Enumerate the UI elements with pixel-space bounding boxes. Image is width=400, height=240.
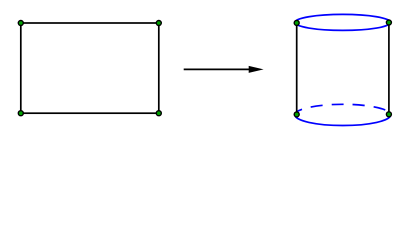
cylinder top ellipse [295, 14, 391, 30]
cylinder dot bottom-right [386, 112, 391, 117]
cylinder left side line [296, 23, 298, 115]
arrow head [249, 66, 264, 73]
vertex dot C (bottom-left) [18, 111, 23, 116]
cylinder bottom ellipse back arc (dashed) [295, 104, 391, 115]
vertex dot A (top-left) [18, 21, 23, 26]
arrow shaft [184, 68, 252, 70]
vertex dot B (top-right) [156, 21, 161, 26]
cylinder right side line [388, 23, 390, 115]
cylinder dot top-right [386, 20, 391, 25]
cylinder dot top-left [294, 20, 299, 25]
rectangle ABCD [21, 23, 159, 113]
cylinder bottom ellipse front arc (solid) [295, 115, 391, 126]
cylinder dot bottom-left [294, 112, 299, 117]
vertex dot D (bottom-right) [156, 111, 161, 116]
